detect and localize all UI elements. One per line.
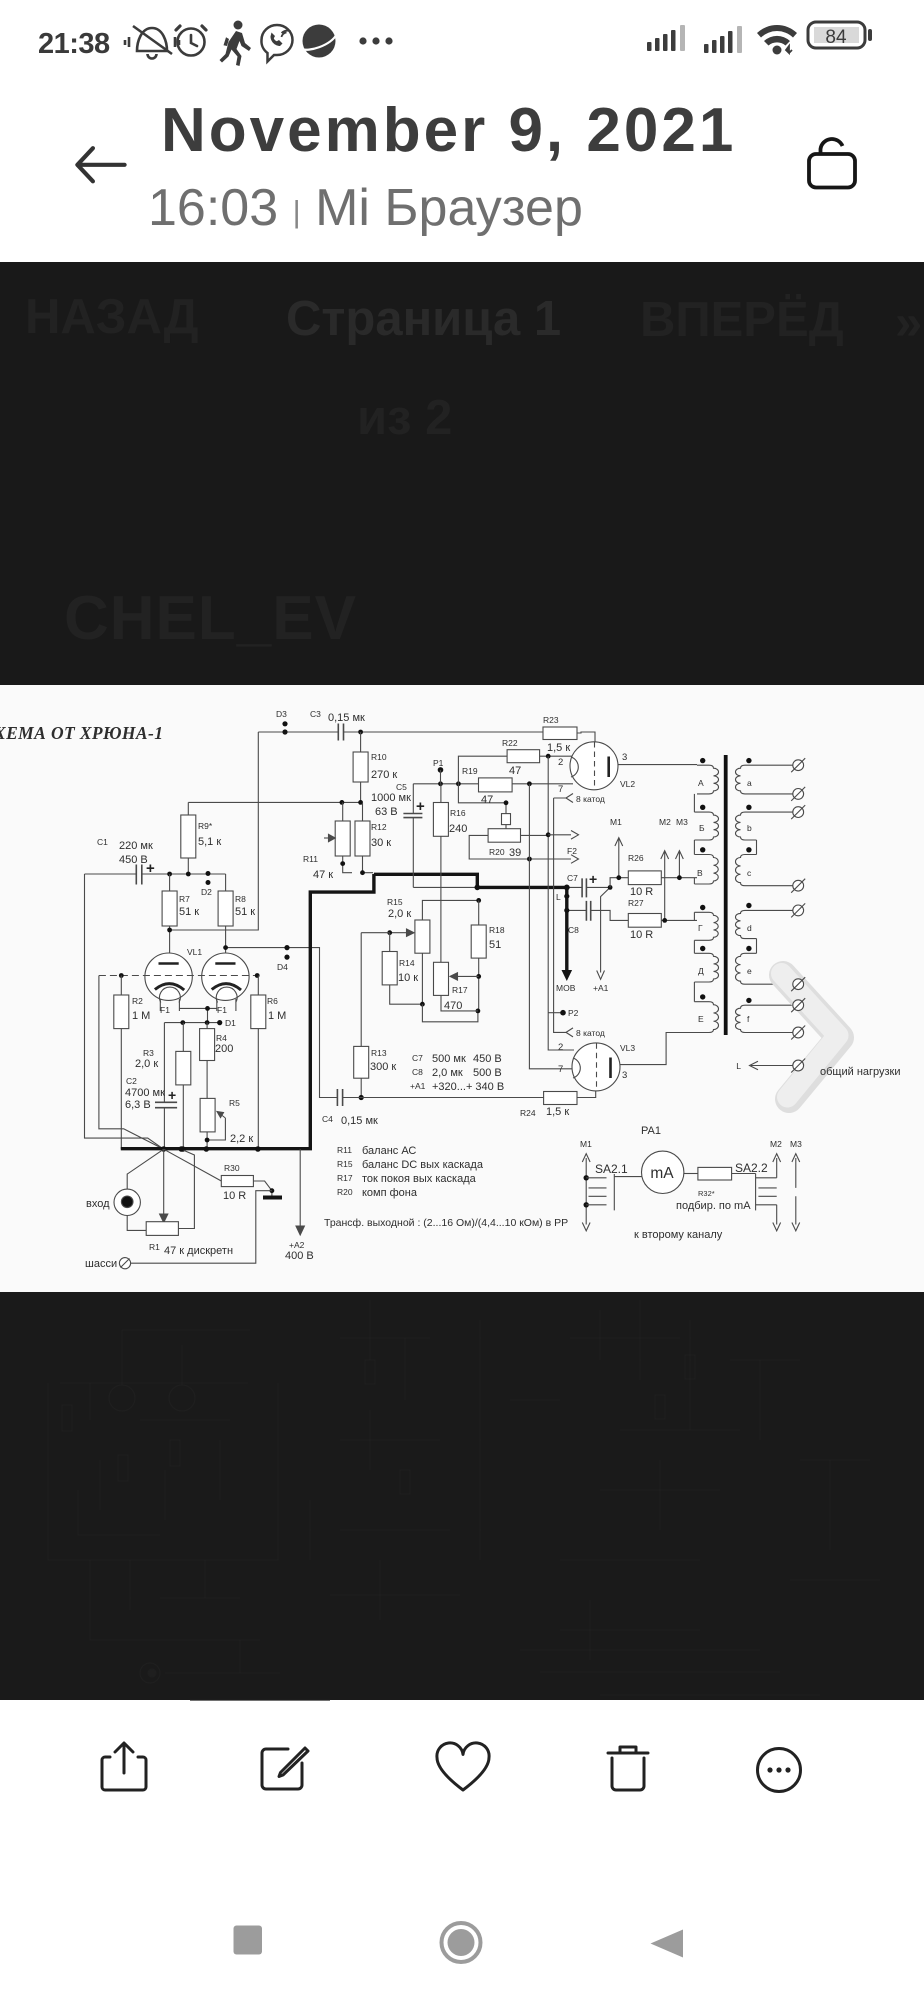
svg-text:D4: D4 (277, 962, 288, 972)
wire R15 bottom (421, 953, 423, 1004)
chevron page-forward overlay (782, 974, 841, 1100)
svg-text:C2: C2 (126, 1076, 137, 1086)
svg-text:200: 200 (215, 1043, 233, 1055)
svg-text:+320...+ 340 В: +320...+ 340 В (432, 1081, 504, 1093)
alarm clock icon (176, 26, 206, 56)
svg-text:2: 2 (558, 757, 563, 768)
svg-text:А: А (698, 778, 704, 788)
primary winding &#1044; (694, 953, 718, 982)
svg-text:шасси: шасси (85, 1258, 117, 1270)
wire VL3 anode to transformer (620, 1033, 697, 1065)
svg-text:+А1: +А1 (593, 983, 609, 993)
svg-text:R15: R15 (387, 897, 403, 907)
svg-text:PA1: PA1 (641, 1125, 661, 1137)
resistor R16 (440, 784, 442, 803)
wire M2 arrows (773, 1154, 781, 1178)
svg-text:C4: C4 (322, 1114, 333, 1124)
cathode chevron VL3 (566, 1028, 573, 1037)
muted bell icon (125, 26, 179, 59)
wire C5 bottom to bus (413, 886, 477, 888)
wire +A2 supply arrow (299, 1149, 301, 1228)
svg-text:M2: M2 (659, 817, 671, 827)
svg-text:F1: F1 (217, 1005, 227, 1015)
terminal connector (791, 758, 805, 772)
wire input grid line y=874 (85, 873, 226, 875)
planet icon (301, 25, 337, 58)
wire primary jog B-V (693, 840, 695, 855)
svg-text:1,5 к: 1,5 к (546, 1106, 569, 1118)
svg-text:R10: R10 (371, 752, 387, 762)
svg-text:2,0 к: 2,0 к (135, 1058, 158, 1070)
resistor R13 (360, 933, 362, 1047)
primary winding &#1045; (666, 1002, 718, 1033)
svg-text:L: L (736, 1061, 741, 1071)
svg-text:комп фона: комп фона (362, 1187, 418, 1199)
svg-text:450 В: 450 В (119, 854, 148, 866)
wire MOB thick arrow (565, 887, 568, 972)
svg-text:1000 мк: 1000 мк (371, 792, 411, 804)
svg-text:Трансф. выходной : (2...16 Ом): Трансф. выходной : (2...16 Ом)/(4,4...10… (324, 1217, 568, 1229)
wire anode supply to D4 and C4 column (226, 948, 338, 1098)
terminal connector (791, 998, 805, 1012)
svg-text:10 к: 10 к (398, 972, 418, 984)
svg-text:R13: R13 (371, 1048, 387, 1058)
svg-text:d: d (747, 923, 752, 933)
potentiometer R15 (415, 920, 430, 953)
terminal connector (791, 1026, 805, 1040)
svg-text:500 В: 500 В (473, 1067, 502, 1079)
svg-text:1,5 к: 1,5 к (547, 742, 570, 754)
node phase dots primary (700, 758, 705, 1000)
wire secondary jog b-c (756, 840, 758, 855)
potentiometer R1 (146, 1222, 178, 1236)
wire grid line y=783.8 (413, 783, 573, 785)
nav square (234, 1926, 263, 1955)
svg-text:F2: F2 (567, 846, 577, 856)
node phase dots secondary (746, 758, 751, 1003)
svg-text:8 катод: 8 катод (576, 1028, 605, 1038)
potentiometer R17 (434, 962, 449, 995)
svg-text:Б: Б (699, 823, 705, 833)
more (ellipsis circle) icon (758, 1749, 801, 1792)
resistor R27 (628, 914, 661, 928)
resistor R18 (478, 900, 480, 925)
svg-text:+: + (416, 798, 425, 815)
capacitor C4 (337, 1089, 342, 1106)
signal bars 1 (647, 25, 685, 51)
wire left column from C1 (85, 874, 164, 1149)
terminal connector L (791, 1059, 805, 1073)
signal bars 2 (704, 26, 742, 53)
svg-text:C7: C7 (567, 873, 578, 883)
svg-text:R12: R12 (371, 822, 387, 832)
potentiometer R5 (200, 1098, 215, 1132)
capacitor C7 (567, 886, 610, 888)
svg-text:+: + (589, 871, 597, 887)
svg-text:к второму каналу: к второму каналу (634, 1229, 723, 1241)
capacitor C8 (567, 910, 629, 920)
wire grid dashed line VL1 (99, 975, 257, 977)
wifi icon (757, 25, 797, 54)
svg-text:R7: R7 (179, 894, 190, 904)
wire primary V to R26 (693, 878, 695, 884)
svg-text:C8: C8 (568, 925, 579, 935)
wire VL2 grid column v_b (548, 756, 574, 1050)
svg-text:a: a (747, 778, 752, 788)
svg-text:VL3: VL3 (620, 1043, 635, 1053)
resistor R30 (221, 1176, 253, 1187)
viber icon (261, 25, 292, 62)
open lock icon (809, 139, 855, 188)
svg-text:51 к: 51 к (179, 906, 199, 918)
svg-text:SA2.2: SA2.2 (735, 1161, 768, 1175)
svg-text:M3: M3 (790, 1139, 802, 1149)
wire VL2 anode to transformer (618, 764, 697, 766)
svg-text:подбир. по mA: подбир. по mA (676, 1200, 751, 1212)
svg-text:R24: R24 (520, 1108, 536, 1118)
nav circle (442, 1923, 481, 1962)
ghost dimmed thumbnails in dark area (48, 1300, 880, 1700)
svg-text:R1: R1 (149, 1242, 160, 1252)
svg-text:450 В: 450 В (473, 1053, 502, 1065)
resistor R6 (257, 976, 259, 996)
svg-text:общий нагрузки: общий нагрузки (820, 1066, 901, 1078)
potentiometer R11 (342, 802, 344, 821)
nav triangle (651, 1930, 684, 1958)
svg-text:+А1: +А1 (410, 1081, 426, 1091)
wire left grid column down (99, 976, 164, 1150)
svg-text:D2: D2 (201, 887, 212, 897)
resistor R12 (362, 802, 364, 821)
triode VL1b (202, 953, 249, 1000)
svg-text:f: f (747, 1014, 750, 1024)
node P1 (438, 767, 444, 773)
wire M2 arrow (661, 851, 669, 921)
svg-text:МОВ: МОВ (556, 983, 576, 993)
battery 84 (808, 22, 872, 48)
svg-text:R11: R11 (337, 1145, 352, 1155)
trash icon (608, 1747, 648, 1790)
wire F2 test arrow (548, 831, 578, 840)
terminal connector (791, 805, 805, 819)
svg-text:R23: R23 (543, 715, 559, 725)
edit icon (262, 1748, 308, 1789)
secondary winding d (736, 910, 793, 938)
svg-text:R8: R8 (235, 894, 246, 904)
resistor R26 (628, 871, 661, 885)
wire heater connection (179, 1008, 216, 1022)
svg-text:R17: R17 (452, 985, 468, 995)
svg-text:10 R: 10 R (223, 1190, 246, 1202)
svg-text:3: 3 (622, 752, 627, 763)
svg-text:b: b (747, 823, 752, 833)
wire X junction diagonals (127, 1149, 221, 1217)
resistor R9* (181, 815, 196, 858)
secondary winding f (736, 1005, 793, 1032)
svg-text:+: + (168, 1087, 176, 1103)
wire R8 bottom to VL1 anode (225, 926, 227, 963)
svg-text:R20: R20 (489, 847, 505, 857)
wire thick ground bus (121, 874, 374, 1149)
svg-text:2,2 к: 2,2 к (230, 1133, 253, 1145)
svg-text:R16: R16 (450, 808, 466, 818)
svg-text:R4: R4 (216, 1033, 227, 1043)
wire thick anode bus (374, 874, 567, 887)
wire primary jog A-B (693, 794, 695, 812)
svg-text:R19: R19 (462, 766, 478, 776)
heart icon (437, 1743, 489, 1790)
secondary winding a (735, 765, 792, 794)
svg-text:7: 7 (558, 1064, 563, 1075)
capacitor C2 (163, 1023, 165, 1150)
capacitor C1 (136, 865, 142, 885)
share icon (102, 1743, 146, 1790)
wire primary jog D-E (693, 982, 695, 1002)
svg-text:D3: D3 (276, 709, 287, 719)
svg-text:R9*: R9* (198, 821, 213, 831)
meter PA1 mA (642, 1151, 684, 1193)
svg-text:0,15 мк: 0,15 мк (341, 1115, 378, 1127)
svg-text:10 R: 10 R (630, 886, 653, 898)
wire R7 bottom to VL1 anode (169, 926, 171, 963)
resistor R8 (225, 874, 227, 891)
wire lower test arrow (529, 855, 578, 864)
resistor R14 (361, 933, 390, 952)
svg-text:51: 51 (489, 939, 501, 951)
svg-text:R22: R22 (502, 738, 518, 748)
svg-text:R2: R2 (132, 996, 143, 1006)
svg-text:P2: P2 (568, 1008, 579, 1018)
svg-text:P1: P1 (433, 758, 444, 768)
wire +A1 arrow (601, 887, 611, 972)
svg-text:ток покоя вых каскада: ток покоя вых каскада (362, 1173, 477, 1185)
svg-text:8 катод: 8 катод (576, 794, 605, 804)
svg-text:300 к: 300 к (370, 1061, 396, 1073)
svg-text:С8: С8 (412, 1067, 423, 1077)
switch SA2.1 (582, 1154, 590, 1231)
svg-text:500 мк: 500 мк (432, 1053, 466, 1065)
svg-text:4700 мк: 4700 мк (125, 1087, 165, 1099)
svg-text:R18: R18 (489, 925, 505, 935)
resistor R22 (507, 750, 539, 763)
svg-text:баланс АС: баланс АС (362, 1145, 416, 1157)
svg-text:L: L (556, 892, 561, 902)
svg-text:R6: R6 (267, 996, 278, 1006)
svg-text:R20: R20 (337, 1187, 353, 1197)
svg-text:mA: mA (650, 1165, 674, 1182)
resistor R19 (479, 778, 513, 792)
switch SA2.2 (755, 1174, 757, 1211)
secondary winding b (736, 812, 793, 840)
resistor R24 (544, 1092, 577, 1105)
svg-text:2: 2 (558, 1042, 563, 1053)
svg-text:e: e (747, 966, 752, 976)
back arrow (77, 148, 124, 181)
wire cathode net join (422, 1004, 478, 1022)
wire VL2 cathode column (554, 798, 566, 1032)
triode VL2 (570, 742, 618, 790)
capacitor C3 (338, 724, 343, 741)
wire bias line y=802.4 (188, 802, 360, 815)
terminal connector (791, 903, 805, 917)
svg-text:39: 39 (509, 847, 521, 859)
resistor R2 (120, 976, 122, 996)
primary winding &#1042; (694, 855, 718, 885)
three dots (359, 37, 366, 44)
svg-text:3: 3 (622, 1070, 627, 1081)
primary winding &#1041; (694, 812, 718, 840)
transformer core (724, 755, 728, 1035)
svg-text:30 к: 30 к (371, 837, 391, 849)
chassis terminal (119, 1258, 130, 1269)
svg-text:5,1 к: 5,1 к (198, 836, 221, 848)
potentiometer R20 (488, 829, 520, 843)
svg-text:6,3 В: 6,3 В (125, 1099, 151, 1111)
svg-text:C5: C5 (396, 782, 407, 792)
svg-text:SA2.1: SA2.1 (595, 1162, 628, 1176)
terminal connector (791, 787, 805, 801)
svg-text:400 В: 400 В (285, 1250, 314, 1262)
node D2 (206, 871, 211, 885)
svg-text:R32*: R32* (698, 1189, 715, 1198)
svg-text:R26: R26 (628, 853, 644, 863)
svg-text:VL1: VL1 (187, 947, 202, 957)
svg-text:0,15 мк: 0,15 мк (328, 712, 365, 724)
svg-text:Г: Г (698, 923, 703, 933)
svg-text:10 R: 10 R (630, 929, 653, 941)
svg-text:47: 47 (481, 794, 493, 806)
svg-text:M1: M1 (610, 817, 622, 827)
node D3 (282, 721, 287, 734)
svg-text:M2: M2 (770, 1139, 782, 1149)
svg-text:2,0 мк: 2,0 мк (432, 1067, 463, 1079)
triode VL1a (145, 953, 192, 1000)
secondary winding c (736, 855, 793, 886)
junction node (358, 730, 363, 735)
resistor R3 (182, 1023, 184, 1052)
wire primary jog G-D (693, 940, 695, 953)
svg-text:С7: С7 (412, 1053, 423, 1063)
svg-text:R30: R30 (224, 1163, 240, 1173)
wire R10 bottom to node (360, 782, 362, 802)
walking person icon (220, 21, 252, 67)
svg-text:M3: M3 (676, 817, 688, 827)
svg-text:R11: R11 (303, 854, 318, 864)
svg-text:R15: R15 (337, 1159, 353, 1169)
svg-text:270 к: 270 к (371, 769, 397, 781)
resistor R23 (543, 727, 577, 740)
svg-text:47: 47 (509, 765, 521, 777)
resistor R7 (169, 874, 171, 891)
capacitor C5 (412, 784, 414, 888)
svg-text:C3: C3 (310, 709, 321, 719)
svg-text:7: 7 (558, 784, 563, 795)
svg-text:R3: R3 (143, 1048, 154, 1058)
wire primary G to R27 (693, 912, 695, 920)
svg-text:В: В (697, 868, 703, 878)
svg-text:Д: Д (698, 966, 704, 976)
input jack (114, 1189, 140, 1215)
primary winding A (697, 765, 719, 794)
primary winding &#1043; (694, 912, 718, 940)
wire feedback y=930 to right column (170, 732, 259, 930)
secondary winding e (736, 953, 793, 984)
wire secondary jog d-e (756, 939, 758, 954)
resistor R10 (360, 732, 362, 752)
svg-text:C1: C1 (97, 837, 108, 847)
resistor R32 (698, 1167, 732, 1180)
svg-text:ХЕМА ОТ ХРЮНА-1: ХЕМА ОТ ХРЮНА-1 (0, 723, 163, 743)
wire M3 arrows (792, 1154, 800, 1188)
svg-text:1 М: 1 М (268, 1010, 286, 1022)
svg-text:84: 84 (825, 27, 847, 48)
svg-text:63 В: 63 В (375, 806, 398, 818)
wire top feedback line y=732 (258, 731, 543, 733)
svg-text:R5: R5 (229, 1098, 240, 1108)
node P2 (548, 1012, 563, 1014)
wire cathode line y=1022.6 (164, 1022, 219, 1024)
svg-text:D1: D1 (225, 1018, 236, 1028)
wire M3 arrow (676, 851, 684, 878)
triode VL3 (572, 1043, 620, 1091)
svg-text:220 мк: 220 мк (119, 840, 153, 852)
svg-text:1 М: 1 М (132, 1010, 150, 1022)
svg-text:c: c (747, 868, 752, 878)
wire R23 to VL2 top (577, 732, 595, 742)
svg-text:Е: Е (698, 1014, 704, 1024)
wire C7 up to R26 (610, 878, 628, 888)
svg-text:баланс DC вых каскада: баланс DC вых каскада (362, 1159, 484, 1171)
terminal connector (791, 977, 805, 991)
svg-text:R14: R14 (399, 958, 415, 968)
wire VL2 pin7 column v_a (529, 784, 573, 1069)
svg-text:F1: F1 (160, 1005, 170, 1015)
wire VL3 bottom to R24 (577, 1091, 596, 1098)
svg-text:51 к: 51 к (235, 906, 255, 918)
svg-text:VL2: VL2 (620, 779, 635, 789)
trimmer link R20 wiper (502, 814, 511, 825)
svg-text:47 к: 47 к (313, 869, 333, 881)
wire L load common arrow (750, 1061, 793, 1070)
svg-text:R17: R17 (337, 1173, 353, 1183)
svg-text:вход: вход (86, 1198, 110, 1210)
svg-text:R27: R27 (628, 898, 644, 908)
svg-text:2,0 к: 2,0 к (388, 908, 411, 920)
svg-text:47 к дискретн: 47 к дискретн (164, 1245, 233, 1257)
resistor R4 (206, 1023, 208, 1029)
svg-text:470: 470 (444, 1000, 462, 1012)
ground bar (263, 1196, 282, 1200)
svg-text:M1: M1 (580, 1139, 592, 1149)
terminal connector (791, 879, 805, 893)
cathode chevron VL2 (566, 794, 573, 803)
wire M1 arrow (615, 838, 623, 878)
svg-text:240: 240 (449, 823, 467, 835)
svg-text:+А2: +А2 (289, 1240, 305, 1250)
